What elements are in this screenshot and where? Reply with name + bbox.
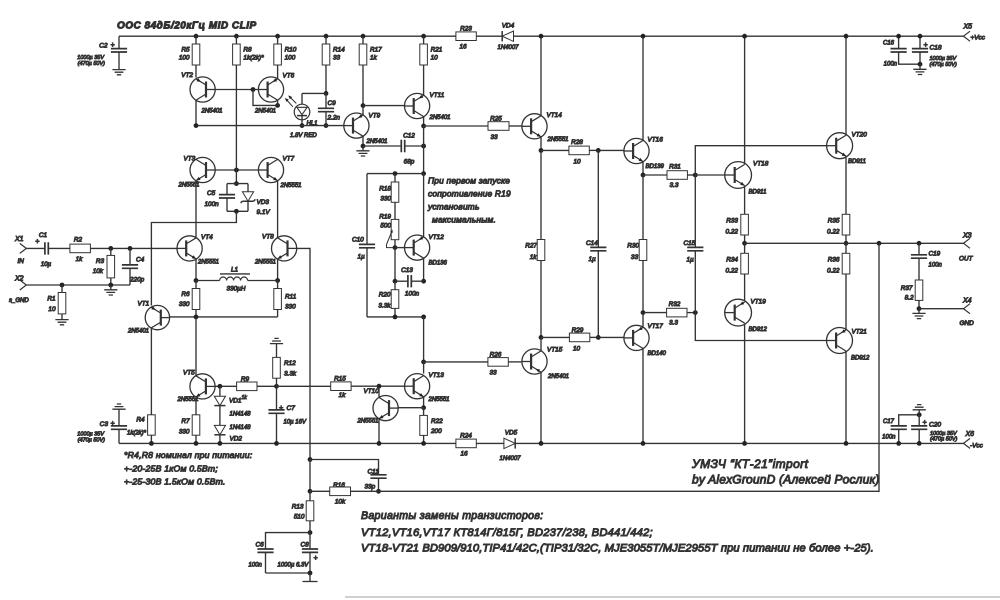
svg-text:R30: R30 (627, 243, 639, 250)
transistor VT6 (277, 65, 279, 79)
transistor VT19 (744, 274, 746, 302)
ground below C2 (118, 52, 120, 69)
wire VT21 emitter to rail (845, 351, 847, 443)
svg-text:1N4148: 1N4148 (230, 412, 252, 418)
resistor R24 (456, 439, 476, 448)
svg-text:C8: C8 (301, 542, 310, 549)
svg-text:33: 33 (490, 134, 498, 141)
svg-text:X5: X5 (963, 24, 973, 31)
svg-text:10: 10 (431, 54, 439, 61)
wire R8 bias column (235, 65, 237, 184)
svg-text:R25: R25 (490, 116, 502, 123)
svg-text:OUT: OUT (959, 256, 974, 263)
svg-text:3.3: 3.3 (669, 320, 678, 327)
svg-text:VT14: VT14 (547, 112, 563, 119)
resistor R27 (540, 150, 542, 239)
svg-text:VD4: VD4 (502, 23, 515, 30)
svg-text:X4: X4 (962, 298, 972, 305)
svg-text:VT20: VT20 (852, 132, 868, 139)
svg-text:R20: R20 (379, 292, 391, 299)
capacitor C14 (597, 150, 599, 247)
svg-text:(470µ 50V): (470µ 50V) (930, 437, 957, 443)
svg-text:+: + (923, 42, 927, 49)
svg-text:10k: 10k (335, 499, 346, 506)
svg-text:100n: 100n (249, 563, 263, 569)
svg-text:R33: R33 (726, 218, 738, 225)
svg-text:Варианты замены транзисторов:: Варианты замены транзисторов: (361, 510, 543, 522)
svg-text:33: 33 (489, 370, 497, 377)
wire VT20 collector to rail (845, 36, 847, 135)
wire VT4 emitter node (195, 259, 197, 281)
svg-text:330µH: 330µH (227, 285, 246, 292)
resistor R34 (741, 253, 749, 274)
svg-text:500: 500 (380, 223, 391, 230)
svg-text:VT2: VT2 (181, 72, 193, 79)
svg-text:3.3k: 3.3k (284, 371, 297, 378)
ground below C18 (919, 64, 921, 69)
svg-text:330: 330 (380, 196, 391, 203)
port X2 (20, 280, 27, 290)
wire VT15 collector (540, 337, 542, 351)
wire VT9 to VT11 base (363, 105, 405, 107)
wire VT13 collector node (423, 317, 425, 362)
svg-text:100: 100 (179, 54, 190, 61)
transistor VT14 (522, 114, 547, 139)
svg-text:2N5401: 2N5401 (254, 109, 276, 115)
svg-text:(470µ 50V): (470µ 50V) (78, 61, 105, 67)
capacitor C8 (309, 533, 311, 549)
svg-text:R14: R14 (333, 47, 345, 54)
svg-text:VT18: VT18 (753, 161, 769, 168)
transistor VT21 (845, 274, 847, 329)
svg-text:10k: 10k (93, 268, 104, 275)
wire X2 ground line (26, 284, 130, 286)
resistor R25 (424, 125, 488, 127)
transistor VT5 (190, 374, 215, 399)
svg-text:2N5551: 2N5551 (547, 137, 569, 143)
resistor R35 (845, 157, 847, 215)
resistor R16 (310, 490, 330, 492)
svg-text:VT21: VT21 (852, 329, 868, 336)
svg-text:BD911: BD911 (848, 159, 866, 165)
wire VT17 collector (642, 313, 644, 328)
svg-text:X3: X3 (962, 233, 972, 240)
svg-text:1µ: 1µ (589, 256, 597, 263)
svg-text:0.22: 0.22 (827, 268, 840, 275)
resistor R3 (110, 248, 112, 255)
wire C11 branch (310, 460, 379, 475)
wire C6/C8 bottom (266, 572, 311, 574)
wire +Vcc top rail (119, 35, 456, 37)
svg-text:BD139: BD139 (646, 164, 665, 170)
svg-text:0.22: 0.22 (726, 229, 739, 236)
svg-text:R5: R5 (181, 47, 190, 54)
scan artifact line (345, 596, 1000, 598)
svg-text:R29: R29 (572, 327, 584, 334)
svg-text:330: 330 (179, 429, 190, 436)
svg-text:2N5401: 2N5401 (201, 109, 223, 115)
resistor R13 (309, 491, 311, 501)
svg-text:C12: C12 (403, 133, 415, 140)
svg-text:510: 510 (294, 514, 305, 521)
ground above R12 (270, 338, 283, 343)
wire R20 bottom row (367, 316, 424, 318)
svg-text:R23: R23 (460, 26, 472, 33)
wire VT19 emitter to rail (744, 324, 746, 444)
wire C5/VD3 bottom (227, 210, 248, 212)
wire VT12 column (423, 174, 425, 237)
svg-text:2N5401: 2N5401 (547, 374, 569, 380)
svg-text:2N5551: 2N5551 (177, 397, 199, 403)
svg-text:C3: C3 (100, 421, 109, 428)
inductor L1 (196, 280, 220, 282)
svg-text:+-20-25В 1кОм 0.5Вт;: +-20-25В 1кОм 0.5Вт; (124, 464, 218, 474)
resistor R11 (277, 281, 279, 289)
svg-text:R6: R6 (181, 291, 190, 298)
svg-text:VT10: VT10 (364, 388, 380, 395)
svg-text:C18: C18 (930, 45, 942, 52)
wire VT2 base to VT6 (215, 89, 258, 91)
svg-text:R32: R32 (669, 301, 681, 308)
resistor R29 (541, 336, 569, 338)
svg-text:(470µ 50V): (470µ 50V) (78, 438, 105, 444)
svg-text:X6: X6 (965, 431, 975, 438)
svg-text:2N5401: 2N5401 (366, 139, 388, 145)
resistor R32 (643, 312, 667, 314)
svg-text:УМЗЧ “КТ-21”import: УМЗЧ “КТ-21”import (691, 457, 809, 471)
wire VT3-VT7 bases (215, 169, 258, 171)
svg-text:10µ: 10µ (41, 262, 52, 268)
svg-text:VT5: VT5 (183, 370, 195, 377)
wire R18 top (367, 173, 424, 175)
svg-text:2N5401: 2N5401 (127, 329, 149, 335)
svg-text:s_GND: s_GND (9, 298, 29, 304)
transistor VT18 (725, 162, 752, 189)
svg-text:C6: C6 (256, 542, 265, 549)
svg-text:VT8: VT8 (262, 234, 274, 241)
svg-text:2N5551: 2N5551 (428, 397, 450, 403)
svg-text:100n: 100n (929, 263, 943, 269)
svg-text:R31: R31 (669, 164, 681, 171)
svg-text:C14: C14 (586, 240, 598, 247)
svg-text:1µ: 1µ (358, 254, 366, 261)
svg-text:R12: R12 (284, 360, 296, 367)
wire to VT16 base (598, 149, 624, 151)
svg-text:R26: R26 (490, 352, 502, 359)
svg-text:R19: R19 (379, 214, 391, 221)
svg-text:1N4007: 1N4007 (499, 456, 521, 462)
svg-text:C11: C11 (368, 469, 380, 476)
svg-text:-Vcc: -Vcc (970, 443, 984, 450)
resistor R26 (424, 361, 488, 363)
svg-text:+: + (279, 405, 283, 412)
resistor R12 (276, 344, 278, 357)
wire R19 to VT12 base (394, 240, 396, 248)
svg-text:16: 16 (460, 451, 468, 458)
svg-text:R18: R18 (379, 186, 391, 193)
svg-text:+: + (313, 555, 317, 562)
diode VD1 (219, 386, 221, 396)
svg-text:16: 16 (459, 44, 467, 51)
svg-text:L1: L1 (231, 267, 239, 274)
capacitor C17 (899, 415, 920, 426)
svg-text:2N5401: 2N5401 (429, 115, 451, 121)
svg-text:R28: R28 (571, 139, 583, 146)
svg-text:VT1: VT1 (138, 301, 150, 308)
wire input node (90, 247, 177, 249)
transistor VT20 (827, 133, 853, 159)
wire VT8 emitter node (277, 259, 279, 281)
svg-text:1000µ 6.3V: 1000µ 6.3V (278, 563, 310, 569)
svg-text:330: 330 (179, 301, 190, 308)
transistor VT13 (405, 374, 430, 399)
svg-text:установить: установить (427, 202, 480, 212)
resistor R8 (234, 34, 239, 39)
capacitor C6 (266, 533, 311, 549)
ground below C8 (309, 573, 311, 582)
svg-text:R2: R2 (74, 237, 83, 244)
svg-text:100: 100 (285, 54, 296, 61)
svg-text:IN: IN (18, 258, 25, 265)
ground below R1 (61, 314, 63, 319)
svg-text:R16: R16 (333, 482, 345, 489)
capacitor C4 (129, 248, 131, 265)
wire R14 to HL1/C9 (325, 65, 327, 93)
svg-text:R22: R22 (431, 418, 443, 425)
resistor R18 (394, 174, 396, 182)
transistor VT12 (405, 235, 430, 260)
svg-text:R4: R4 (136, 417, 145, 424)
transistor VT2 (195, 65, 197, 78)
svg-text:VT7: VT7 (283, 156, 295, 163)
svg-text:9.1V: 9.1V (257, 209, 271, 216)
transistor VT7 (258, 157, 283, 182)
svg-text:R9: R9 (241, 376, 250, 383)
svg-text:VT18-VT21 BD909/910,TIP41/42C,: VT18-VT21 BD909/910,TIP41/42C,(TIP31/32C… (361, 543, 874, 555)
wire R15 to VT13 base (351, 385, 404, 387)
svg-text:33: 33 (631, 254, 639, 261)
svg-text:+Vcc: +Vcc (971, 35, 986, 42)
wire VT5 collector column (195, 317, 197, 376)
svg-text:10: 10 (48, 306, 56, 313)
resistor R28 (541, 149, 569, 151)
capacitor C9 (325, 93, 327, 108)
svg-text:1k(2k)*: 1k(2k)* (243, 54, 264, 61)
svg-text:3.3: 3.3 (670, 182, 679, 189)
svg-text:1µ: 1µ (687, 257, 695, 264)
svg-text:*R4,R8 номинал при питании:: *R4,R8 номинал при питании: (124, 450, 253, 460)
wire VT10 emitter (378, 419, 380, 444)
svg-text:100n: 100n (884, 62, 898, 68)
capacitor C20 (917, 412, 922, 417)
wire VT5 base node (215, 385, 237, 387)
capacitor C3 (118, 410, 120, 426)
svg-text:100n: 100n (405, 291, 420, 298)
transistor VT3 (190, 157, 215, 182)
transistor VT4 (177, 236, 202, 261)
resistor R5 (194, 34, 199, 39)
zener VD3 (247, 184, 249, 192)
wire VT13 emitter to VT10 base (423, 397, 425, 408)
svg-text:VT6: VT6 (283, 73, 295, 80)
capacitor C2 (118, 36, 120, 48)
ground above C3 (112, 404, 125, 409)
wire VT3 collector to VT4 (195, 181, 197, 238)
svg-text:R13: R13 (292, 504, 304, 511)
wire VT11 column down (423, 126, 425, 146)
svg-text:ООС 84дБ/20кГц MID CLIP: ООС 84дБ/20кГц MID CLIP (117, 21, 257, 32)
wire VT11 collector node (423, 117, 425, 126)
svg-text:0.22: 0.22 (726, 268, 739, 275)
wire feedback column (308, 457, 313, 462)
svg-text:+-25-30В 1.5кОм 0.5Вт.: +-25-30В 1.5кОм 0.5Вт. (124, 477, 226, 487)
svg-text:2N5551: 2N5551 (254, 260, 276, 266)
resistor R14 (324, 34, 329, 39)
wire VT18 collector to rail (744, 36, 746, 164)
wire VT6 diode connection (253, 90, 278, 106)
transistor VT10 (373, 396, 398, 421)
wire VT8 base down (297, 248, 310, 459)
transistor VT15 (522, 349, 547, 374)
wire VT19/VT21 base run (695, 313, 826, 341)
svg-text:максимальным.: максимальным. (432, 215, 496, 225)
ground below R37 (918, 309, 920, 313)
wire clip detector (196, 125, 344, 127)
port X3 (964, 238, 971, 248)
transistor VT17 (624, 325, 649, 350)
wire R9 node to R15 (277, 385, 331, 387)
svg-text:330: 330 (285, 304, 296, 311)
svg-text:R10: R10 (285, 47, 297, 54)
wire VT14 emitter node (540, 137, 542, 151)
transistor VT9 (362, 65, 364, 106)
svg-text:VT12: VT12 (429, 234, 445, 241)
diode VD5 (504, 438, 515, 448)
resistor R10 (275, 34, 280, 39)
resistor R30 (642, 175, 644, 240)
capacitor C10 (366, 174, 368, 245)
svg-text:2N5551: 2N5551 (280, 183, 302, 189)
diode VD2 (219, 406, 221, 426)
svg-text:+: + (35, 239, 39, 246)
svg-text:сопротивление R19: сопротивление R19 (428, 189, 511, 199)
svg-text:+: + (111, 42, 115, 49)
wire to VT17 base (598, 336, 624, 338)
svg-text:R17: R17 (370, 47, 382, 54)
wire tail node (170, 316, 278, 318)
wire output node (745, 242, 964, 244)
capacitor C19 (918, 243, 920, 255)
svg-text:C1: C1 (39, 232, 48, 239)
wire R9 to R12/C7 node (257, 385, 277, 387)
wire to VT1 emitter (151, 211, 236, 305)
svg-text:R34: R34 (726, 257, 738, 264)
svg-text:R24: R24 (460, 433, 472, 440)
svg-text:C5: C5 (207, 190, 216, 197)
transistor VT16 (624, 138, 649, 163)
svg-text:X2: X2 (14, 276, 24, 283)
svg-text:R3: R3 (96, 258, 105, 265)
svg-text:R27: R27 (525, 243, 537, 250)
svg-text:VT19: VT19 (751, 299, 767, 306)
capacitor C13 (394, 248, 396, 282)
capacitor C7 (276, 386, 278, 410)
capacitor C15 (694, 175, 696, 247)
svg-text:VT11: VT11 (430, 92, 445, 99)
capacitor C5 (226, 184, 228, 195)
wire VT7 collector to VT8 (277, 181, 279, 238)
svg-text:2.2n: 2.2n (327, 115, 341, 122)
svg-text:200: 200 (430, 428, 442, 435)
svg-text:+: + (922, 419, 926, 426)
svg-text:BD912: BD912 (851, 356, 870, 362)
ground below VT9 (362, 146, 364, 150)
svg-text:VT17: VT17 (648, 323, 664, 330)
svg-text:10: 10 (573, 159, 581, 166)
wire R25 to VT14 base (509, 125, 522, 127)
resistor R2 (48, 247, 70, 249)
svg-text:BD136: BD136 (429, 261, 448, 267)
resistor R9 (237, 382, 257, 391)
resistor R15 (331, 382, 351, 391)
svg-text:220p: 220p (129, 277, 145, 284)
wire VT9 collector (362, 136, 364, 146)
svg-text:1k(2k)*: 1k(2k)* (127, 431, 147, 437)
svg-text:При первом запуске: При первом запуске (428, 176, 510, 186)
svg-text:68p: 68p (404, 159, 415, 166)
svg-text:C7: C7 (287, 405, 296, 412)
svg-text:1k: 1k (242, 395, 248, 401)
svg-text:1.8V RED: 1.8V RED (290, 133, 317, 139)
svg-text:0.22: 0.22 (827, 229, 840, 236)
resistor R37 (915, 280, 923, 300)
svg-text:C19: C19 (929, 251, 941, 258)
resistor R17 (361, 34, 366, 39)
svg-text:2N5551: 2N5551 (357, 419, 379, 425)
svg-text:BD912: BD912 (749, 327, 768, 333)
wire -Vcc bottom rail (119, 442, 456, 444)
svg-text:1k: 1k (339, 392, 347, 399)
svg-text:GND: GND (960, 320, 975, 327)
capacitor C16 (898, 36, 900, 48)
svg-text:VT9: VT9 (369, 113, 381, 120)
diode VD4 (502, 31, 513, 41)
svg-text:1k: 1k (76, 256, 84, 263)
port X1 (20, 243, 27, 253)
svg-text:R11: R11 (285, 294, 297, 301)
svg-text:by AlexGrounD (Алексей Рослик): by AlexGrounD (Алексей Рослик) (692, 473, 880, 487)
svg-text:VD2: VD2 (230, 436, 243, 443)
capacitor C18 (919, 36, 921, 48)
wire R31 node to VT18 base (695, 174, 725, 176)
svg-text:BD140: BD140 (648, 351, 667, 357)
svg-text:2N5551: 2N5551 (197, 260, 219, 266)
wire VT17 emitter to rail (642, 349, 644, 444)
svg-text:C10: C10 (352, 237, 364, 244)
svg-text:+: + (111, 421, 115, 428)
svg-text:C16: C16 (883, 41, 895, 47)
resistor R23 (456, 32, 476, 41)
resistor R21 (421, 34, 426, 39)
svg-text:R7: R7 (181, 418, 190, 425)
svg-text:C15: C15 (684, 240, 696, 247)
svg-text:VD1: VD1 (229, 398, 242, 405)
capacitor C1 (26, 247, 45, 249)
resistor R22 (423, 408, 425, 416)
wire VT16 emitter node (642, 162, 644, 175)
svg-text:(470µ 50V): (470µ 50V) (930, 62, 957, 68)
svg-text:R21: R21 (431, 47, 443, 54)
